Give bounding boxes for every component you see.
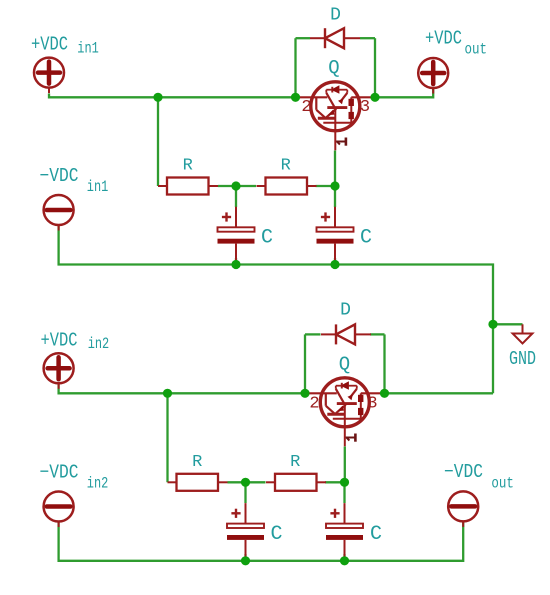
svg-text:D: D [340, 301, 351, 321]
svg-text:−VDC: −VDC [444, 461, 483, 483]
svg-text:C: C [261, 227, 273, 250]
svg-text:GND: GND [509, 348, 536, 370]
svg-text:C: C [370, 523, 382, 546]
svg-text:+VDC: +VDC [31, 34, 68, 56]
svg-text:−VDC: −VDC [40, 165, 79, 187]
svg-text:R: R [183, 157, 193, 176]
svg-text:2: 2 [301, 98, 311, 117]
svg-text:in2: in2 [87, 475, 109, 493]
svg-text:+VDC: +VDC [41, 330, 78, 352]
svg-text:in2: in2 [88, 335, 110, 353]
svg-text:+VDC: +VDC [425, 28, 462, 50]
svg-text:out: out [491, 474, 514, 492]
svg-text:in1: in1 [87, 178, 109, 196]
svg-text:Q: Q [339, 354, 350, 376]
svg-text:R: R [281, 157, 291, 176]
svg-text:3: 3 [360, 98, 370, 117]
svg-text:2: 2 [309, 395, 319, 414]
svg-text:D: D [330, 6, 341, 26]
svg-text:Q: Q [328, 57, 339, 79]
svg-text:3: 3 [367, 395, 377, 414]
svg-text:C: C [360, 227, 372, 250]
svg-text:out: out [465, 41, 488, 59]
svg-text:R: R [192, 453, 202, 472]
svg-text:−VDC: −VDC [40, 462, 79, 484]
svg-text:C: C [271, 523, 283, 546]
svg-text:R: R [290, 453, 300, 472]
svg-text:in1: in1 [77, 40, 99, 58]
